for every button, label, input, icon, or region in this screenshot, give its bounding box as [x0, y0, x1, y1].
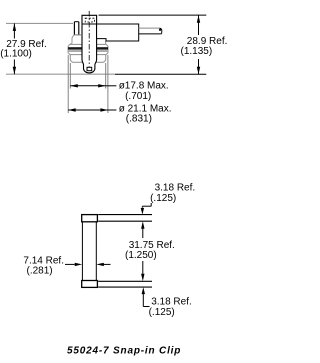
- svg-text:(1.135): (1.135): [181, 46, 213, 57]
- svg-text:ø17.8 Max.: ø17.8 Max.: [119, 80, 169, 91]
- svg-text:(.125): (.125): [149, 307, 175, 318]
- svg-text:(.125): (.125): [150, 193, 176, 204]
- svg-text:(1.100): (1.100): [0, 49, 32, 60]
- svg-text:(.701): (.701): [125, 91, 151, 102]
- svg-text:(1.250): (1.250): [125, 250, 157, 261]
- svg-text:3.18 Ref.: 3.18 Ref.: [155, 182, 196, 193]
- svg-text:(.281): (.281): [27, 265, 53, 276]
- svg-text:(.831): (.831): [126, 114, 152, 125]
- svg-text:55024-7 Snap-in Clip: 55024-7 Snap-in Clip: [67, 345, 181, 356]
- svg-text:3.18 Ref.: 3.18 Ref.: [151, 297, 192, 308]
